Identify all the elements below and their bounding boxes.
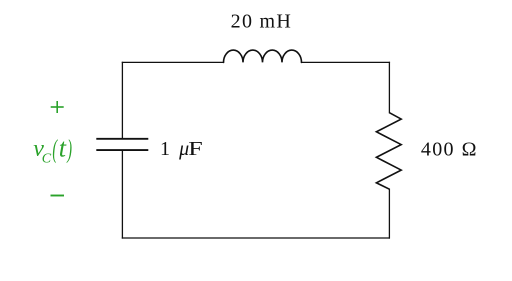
- svg-text:): ): [67, 134, 72, 164]
- svg-text:(: (: [52, 134, 58, 164]
- svg-text:t: t: [59, 134, 67, 163]
- svg-text:20 mH: 20 mH: [231, 11, 293, 33]
- svg-text:400 Ω: 400 Ω: [421, 139, 478, 161]
- svg-text:F: F: [188, 138, 203, 160]
- svg-text:C: C: [42, 151, 52, 166]
- svg-text:1 μ: 1 μ: [160, 138, 190, 160]
